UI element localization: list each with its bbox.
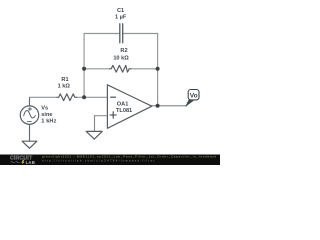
svg-text:sine: sine (41, 112, 52, 118)
svg-text:TL081: TL081 (116, 108, 132, 114)
ground under op-amp plus input (86, 131, 102, 139)
capacitor C1 (120, 24, 123, 43)
wire: op-amp output (152, 105, 187, 107)
svg-text:R2: R2 (120, 48, 127, 54)
wire: feedback top horizontal (right of C1) (123, 33, 158, 35)
svg-text:OA1: OA1 (117, 102, 129, 108)
svg-text:1 µF: 1 µF (115, 15, 127, 21)
wire: input horizontal right of R1 to op-amp minus (77, 96, 108, 98)
svg-text:http;//circuitlab.com/c/p34784: http;//circuitlab.com/c/p34784/lowpass-f… (42, 159, 156, 163)
source Vs minus polarity (27, 121, 31, 123)
wire: feedback right vertical (157, 34, 159, 106)
wire: feedback top horizontal (left of C1) (84, 33, 120, 35)
wire: input horizontal left of R1 (30, 96, 58, 98)
wire: R2 row right segment (131, 68, 158, 70)
wire: op-amp plus input horizontal (95, 115, 108, 117)
watermark logo bolt (21, 160, 24, 165)
op-amp plus sign (110, 112, 116, 118)
node junction at feedback/R2 right (156, 67, 160, 71)
source Vs circle (20, 106, 38, 124)
net flag Vo box (188, 90, 199, 100)
svg-text:Vs: Vs (41, 105, 48, 111)
node junction at feedback/R2 left (82, 67, 86, 71)
svg-text:Vo: Vo (190, 92, 198, 99)
resistor R1 (57, 94, 77, 101)
watermark bar (0, 155, 220, 166)
wire: op-amp plus input down to ground (94, 116, 96, 132)
svg-text:1 kHz: 1 kHz (41, 118, 56, 124)
op-amp minus sign (111, 96, 116, 98)
resistor R2 (110, 65, 132, 72)
wire: Vs top vertical (29, 97, 31, 106)
svg-text:R1: R1 (61, 77, 68, 83)
node junction at output (156, 104, 160, 108)
svg-text:LAB: LAB (26, 160, 35, 165)
watermark logo squiggles (11, 162, 20, 163)
svg-text:10 kΩ: 10 kΩ (113, 55, 129, 61)
wire: feedback left vertical (83, 34, 85, 98)
ground under Vs (22, 141, 37, 148)
svg-text:C1: C1 (117, 8, 124, 14)
svg-text:1 kΩ: 1 kΩ (58, 84, 71, 90)
wire: R2 row left segment (84, 68, 109, 70)
source Vs plus polarity (28, 107, 31, 110)
wire: Vs bottom vertical to ground (29, 124, 31, 141)
node junction at feedback/input (82, 95, 86, 99)
net flag Vo pointer (186, 100, 194, 107)
op-amp U1 triangle (107, 85, 151, 129)
source Vs sine wave (24, 111, 36, 118)
